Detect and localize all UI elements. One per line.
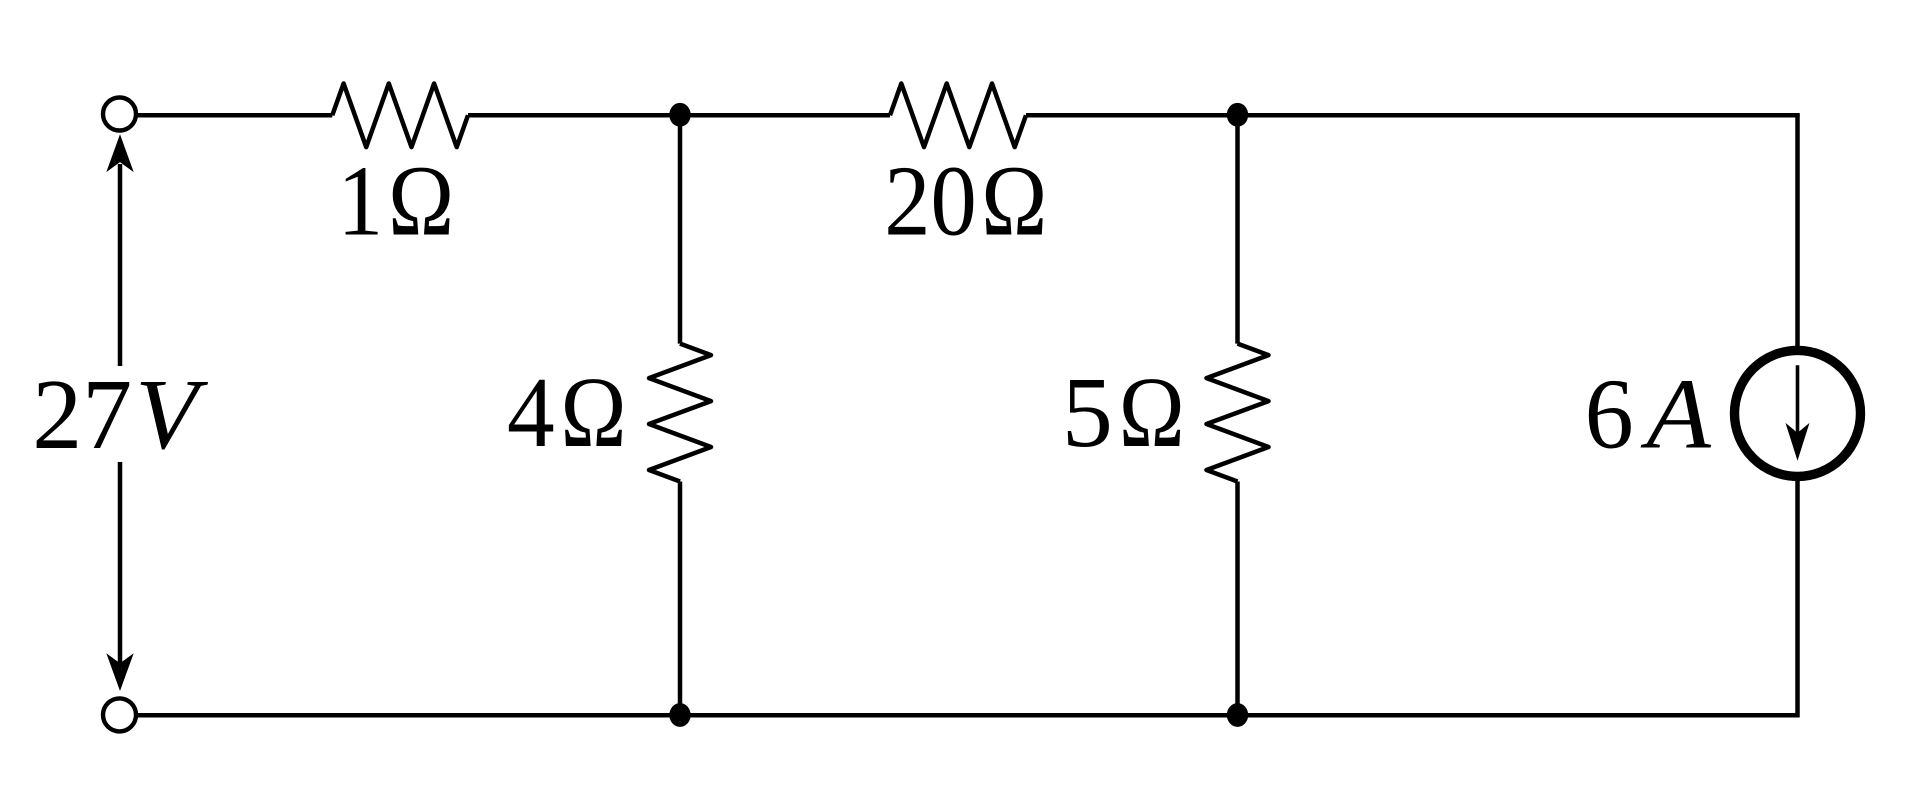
voltage arrow shaft lower: [118, 462, 123, 674]
voltage arrowhead down: [106, 653, 133, 691]
node D junction dot: [1227, 703, 1248, 727]
label 20 ohm: [884, 145, 1047, 257]
voltage arrow shaft upper: [118, 164, 123, 366]
wire top: node A to R2: [680, 113, 890, 118]
wire right side: corner to current source: [1795, 115, 1800, 350]
wire R4 to bottom node D: [1235, 482, 1240, 716]
svg-text:Ω: Ω: [981, 145, 1047, 257]
node C junction dot: [669, 703, 690, 727]
wire top-right: node B to corner: [1238, 115, 1798, 116]
label 4 ohm: [507, 356, 627, 468]
wire top: R1 to node A: [468, 113, 680, 118]
terminal bottom-left (open circle): [103, 698, 136, 731]
svg-text:A: A: [1640, 358, 1712, 470]
resistor R1 1ohm: [332, 84, 468, 148]
node B junction dot: [1227, 103, 1248, 127]
resistor R2 20ohm: [890, 84, 1026, 148]
label 6A: [1585, 358, 1713, 470]
label 5 ohm: [1062, 356, 1185, 468]
svg-text:Ω: Ω: [388, 145, 454, 257]
wire right side: current source to bottom corner: [1795, 477, 1797, 715]
resistor R4 5ohm: [1207, 344, 1269, 482]
svg-text:4: 4: [507, 356, 555, 468]
current source I1 circle: [1735, 350, 1861, 476]
current source arrowhead down: [1786, 423, 1810, 461]
wire node A down to R3: [678, 115, 683, 343]
svg-text:V: V: [135, 358, 208, 470]
wire R3 to bottom node C: [678, 482, 683, 716]
svg-text:Ω: Ω: [1119, 356, 1185, 468]
svg-text:5: 5: [1062, 356, 1113, 468]
wire bottom: [137, 713, 1798, 718]
node A junction dot: [669, 103, 690, 127]
current source arrow shaft: [1796, 365, 1800, 450]
svg-text:Ω: Ω: [561, 356, 627, 468]
resistor R3 4ohm: [649, 344, 711, 482]
svg-text:6: 6: [1585, 358, 1634, 470]
wire top-left: terminal to R1: [136, 113, 332, 118]
label 1 ohm: [338, 145, 455, 257]
wire node B down to R4: [1235, 115, 1240, 343]
terminal top-left (open circle): [103, 98, 136, 131]
svg-text:20: 20: [884, 145, 977, 257]
svg-text:1: 1: [338, 145, 384, 257]
svg-text:27: 27: [32, 358, 132, 470]
voltage arrowhead up: [106, 134, 133, 172]
wire top: R2 to node B: [1026, 113, 1238, 118]
label 27V: [32, 358, 208, 470]
